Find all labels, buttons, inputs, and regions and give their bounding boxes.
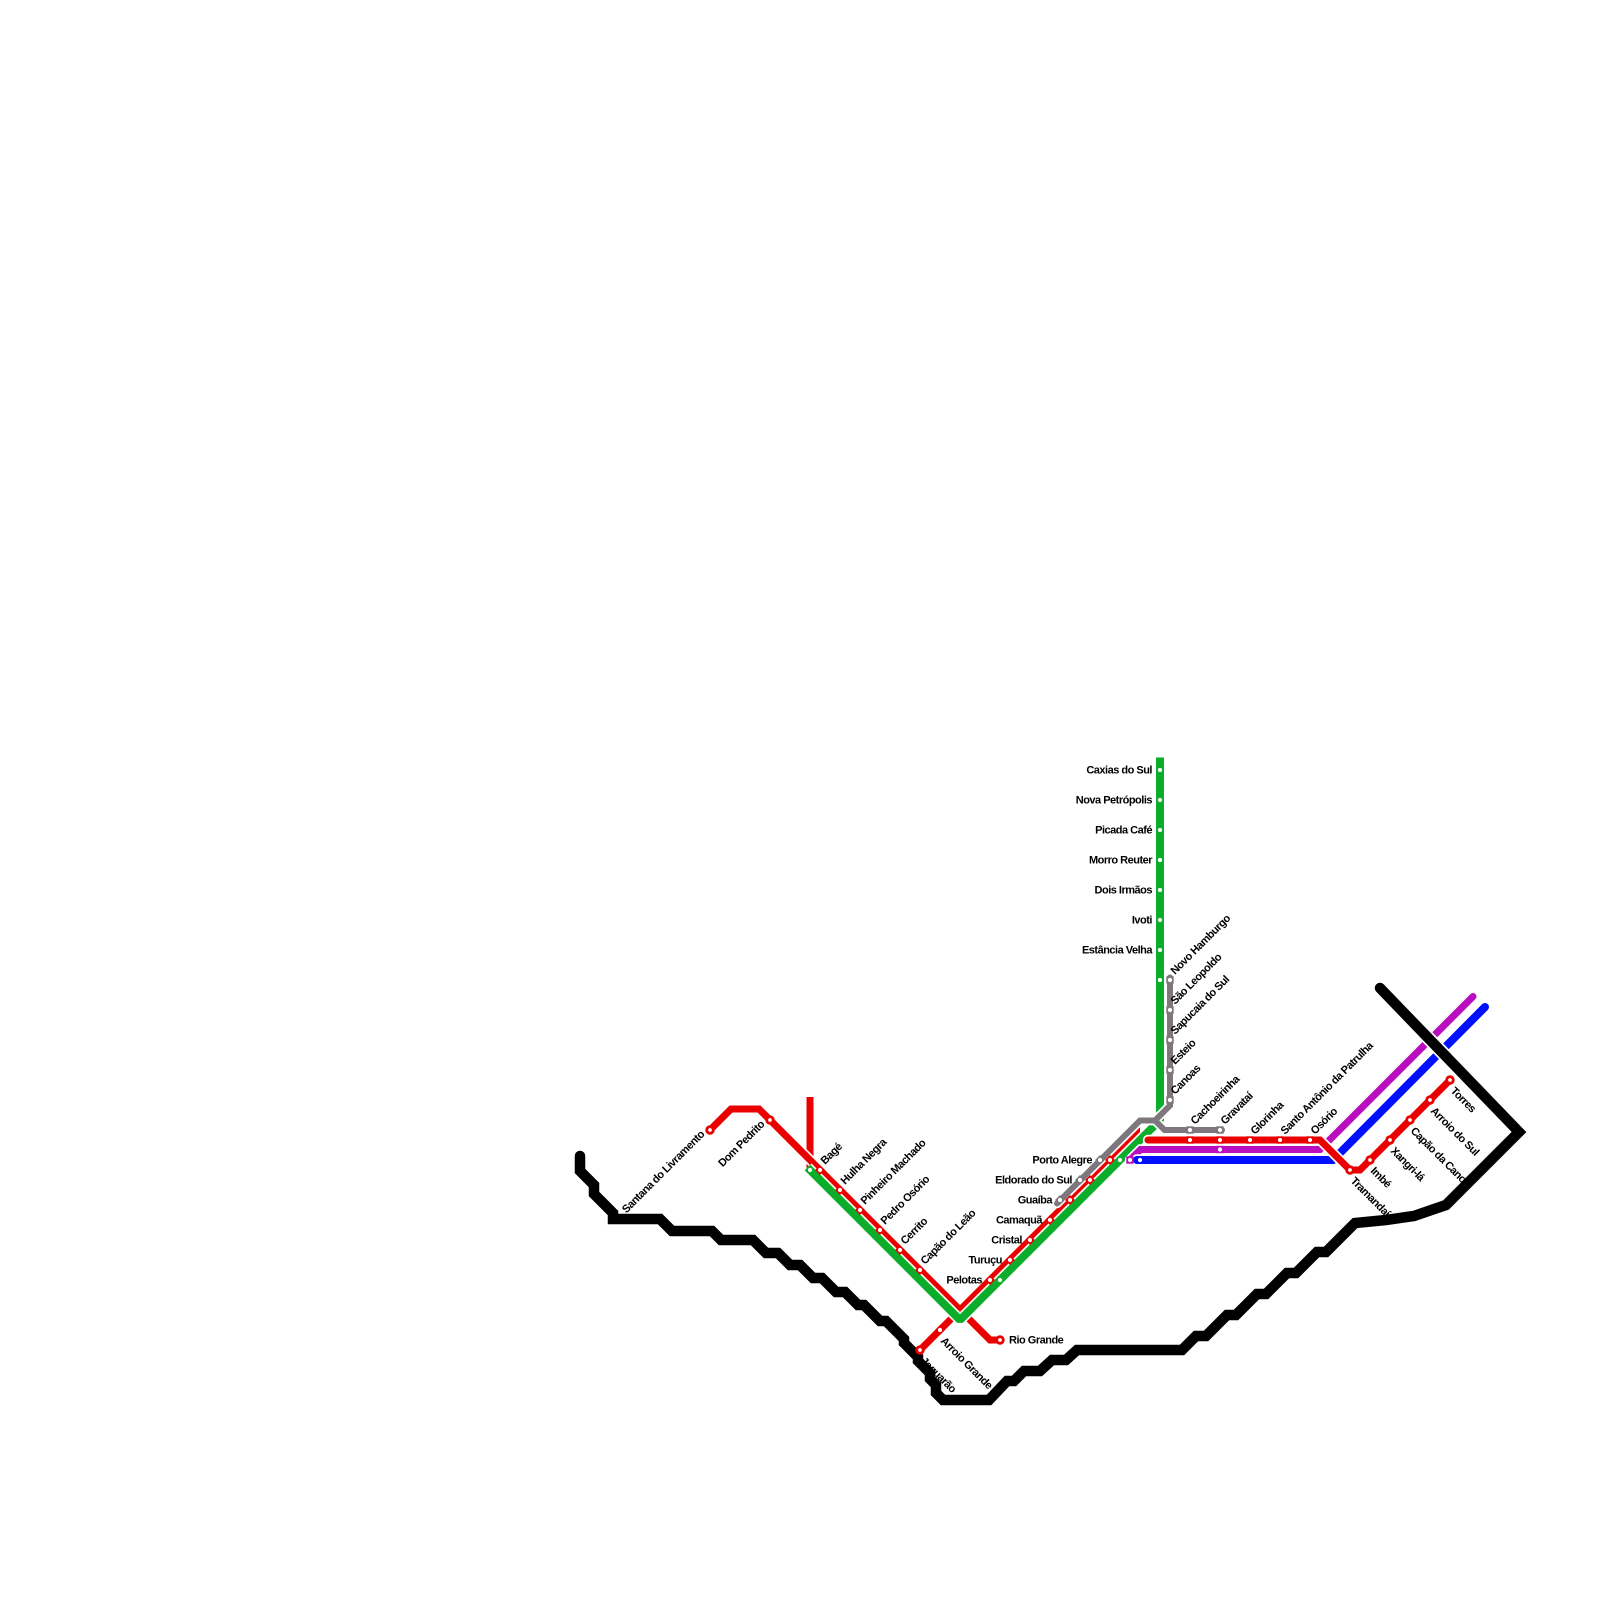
green line Caxias do Sul - Porto Alegre - Bage	[808, 758, 1161, 1321]
station Porto Alegre (purple)	[1126, 1156, 1133, 1163]
black coastline	[580, 988, 1519, 1400]
station Morro Reuter (green)	[1156, 856, 1163, 863]
station Eldorado do Sul (gray)	[1075, 1175, 1085, 1185]
station Cachoeirinha	[1186, 1136, 1193, 1143]
svg-text:Turuçu: Turuçu	[969, 1255, 1002, 1267]
station Picada Café (green)	[1156, 826, 1163, 833]
station Pelotas	[985, 1275, 995, 1285]
svg-text:Cristal: Cristal	[991, 1235, 1022, 1247]
svg-text:Xangri-lá: Xangri-lá	[1388, 1145, 1428, 1185]
station Estância Velha (green)	[1156, 946, 1163, 953]
terminal station Tramandaí	[1345, 1165, 1354, 1174]
red lines (Santana-Porto Alegre network)	[710, 1109, 1137, 1350]
svg-text:Pelotas: Pelotas	[946, 1275, 982, 1287]
terminal station Imbé	[1365, 1155, 1374, 1164]
terminal station Xangri-lá	[1385, 1135, 1394, 1144]
station Guaíba (gray)	[1055, 1195, 1065, 1205]
station Cachoeirinha (gray)	[1186, 1126, 1193, 1133]
station Porto Alegre (gray)	[1095, 1155, 1105, 1165]
station Eldorado do Sul (red)	[1085, 1175, 1095, 1185]
svg-text:Porto Alegre: Porto Alegre	[1032, 1155, 1092, 1167]
station Capão do Leão	[915, 1265, 925, 1275]
station Gravataí	[1216, 1136, 1223, 1143]
station Pinheiro Machado	[855, 1205, 865, 1215]
station Esteio	[1166, 1066, 1173, 1073]
svg-text:Estância Velha: Estância Velha	[1082, 945, 1153, 957]
gray line Novo Hamburgo - Guaiba with Gravatai branch	[1057, 978, 1222, 1204]
station Novo Hamburgo	[1166, 976, 1173, 983]
svg-text:Rio Grande: Rio Grande	[1009, 1335, 1064, 1347]
svg-text:Cerrito: Cerrito	[899, 1215, 931, 1247]
terminal station Dom Pedrito	[765, 1115, 774, 1124]
station Sapucaia do Sul	[1166, 1036, 1173, 1043]
station Ivoti (green)	[1156, 916, 1163, 923]
station Caxias do Sul (green)	[1156, 766, 1163, 773]
station Bagé	[815, 1165, 825, 1175]
station Gravataí (purple)	[1216, 1146, 1223, 1153]
svg-text:Santana do Livramento: Santana do Livramento	[620, 1128, 708, 1216]
station Porto Alegre (red)	[1105, 1155, 1115, 1165]
terminal station Capão da Canoa	[1405, 1115, 1414, 1124]
svg-text:Bagé: Bagé	[819, 1141, 845, 1167]
station Cerrito	[895, 1245, 905, 1255]
station Cristal	[1025, 1235, 1035, 1245]
station Canoas	[1166, 1096, 1173, 1103]
station Gravataí (gray)	[1216, 1126, 1223, 1133]
station Pedro Osório	[875, 1225, 885, 1235]
terminal station Santana do Livramento	[705, 1125, 714, 1134]
terminal station Arroio do Sul	[1425, 1095, 1434, 1104]
station Dois Irmãos (green)	[1156, 886, 1163, 893]
svg-text:Morro Reuter: Morro Reuter	[1089, 855, 1153, 867]
station Hulha Negra	[835, 1185, 845, 1195]
station Novo Hamburgo green (green)	[1156, 976, 1163, 983]
station Santo Antônio da Patrulha	[1276, 1136, 1283, 1143]
station Arroio Grande	[935, 1325, 945, 1335]
svg-text:Picada Café: Picada Café	[1095, 825, 1152, 837]
svg-text:Eldorado do Sul: Eldorado do Sul	[995, 1175, 1072, 1187]
red coastal line Cachoeirinha - Torres	[1148, 1080, 1450, 1170]
purple line Porto Alegre - northeast	[1130, 997, 1473, 1161]
station Glorinha	[1246, 1136, 1253, 1143]
station Bagé (green)	[805, 1165, 815, 1175]
terminal station Jaguarão	[915, 1345, 924, 1354]
svg-text:Caxias do Sul: Caxias do Sul	[1086, 765, 1152, 777]
red spur at Bage	[805, 1097, 815, 1169]
svg-text:Ivoti: Ivoti	[1132, 915, 1153, 927]
svg-text:Imbé: Imbé	[1368, 1165, 1393, 1190]
station Pelotas (green)	[995, 1275, 1005, 1285]
svg-text:Dom Pedrito: Dom Pedrito	[716, 1118, 767, 1169]
svg-text:Nova Petrópolis: Nova Petrópolis	[1076, 795, 1153, 807]
station Turuçu	[1005, 1255, 1015, 1265]
station Guaíba (red)	[1065, 1195, 1075, 1205]
station Nova Petrópolis (green)	[1156, 796, 1163, 803]
svg-text:Dois Irmãos: Dois Irmãos	[1095, 885, 1153, 897]
station Porto Alegre (blue)	[1136, 1156, 1143, 1163]
station Porto Alegre (green)	[1115, 1155, 1125, 1165]
svg-text:Camaquã: Camaquã	[996, 1215, 1043, 1227]
station São Leopoldo	[1166, 1006, 1173, 1013]
blue line Porto Alegre - northeast	[1137, 1007, 1485, 1160]
station Osório	[1306, 1136, 1313, 1143]
station Camaquã	[1045, 1215, 1055, 1225]
svg-text:Guaíba: Guaíba	[1018, 1195, 1054, 1207]
terminal station Torres	[1445, 1075, 1454, 1084]
terminal station Rio Grande	[995, 1335, 1004, 1344]
